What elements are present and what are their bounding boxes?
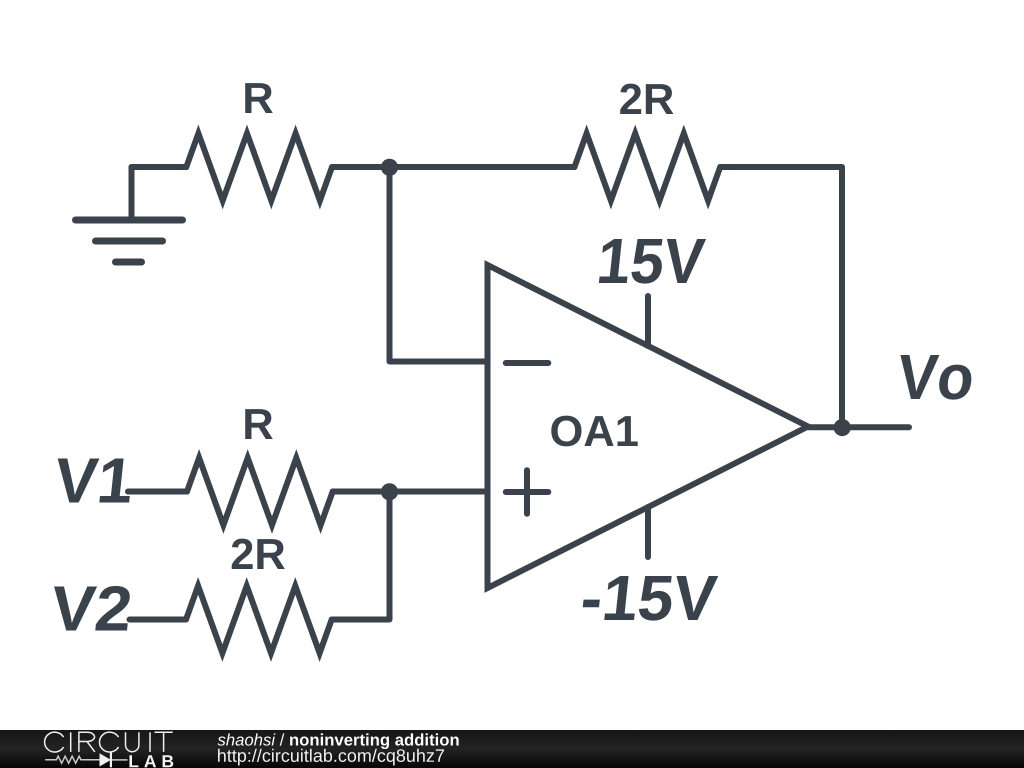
wire V2 lead (130, 617, 187, 623)
wire R1 to node A (332, 164, 390, 170)
pin V+ (645, 296, 651, 346)
wire R2 to node B (333, 489, 390, 495)
label 2R (R3) (620, 84, 673, 114)
resistor R1 (186, 133, 332, 200)
resistor R3 (2R) (575, 133, 721, 200)
wire output (808, 424, 909, 430)
wire node B to noninverting input (390, 489, 488, 495)
resistor R4 (2R) (186, 586, 332, 653)
node label Vo (900, 355, 971, 400)
label 2R (R4) (232, 539, 285, 569)
wire V1 lead (128, 489, 187, 495)
wire R4 up to node B (332, 492, 390, 620)
wire node A to inverting input (390, 167, 488, 362)
wire R3 to output node (720, 167, 842, 428)
label 15V (599, 239, 706, 284)
node label V1 (58, 458, 130, 502)
node B (381, 483, 398, 500)
node label V2 (54, 586, 130, 631)
node A (381, 159, 398, 176)
label R (R1) (245, 83, 273, 113)
wire ground to R1 (132, 164, 187, 170)
wire node A to R3 (390, 164, 575, 170)
op-amp OA1 (488, 265, 809, 588)
ground (76, 167, 183, 262)
footer title (218, 733, 459, 749)
pin V- (645, 507, 651, 557)
resistor R2 (R) (187, 458, 333, 525)
footer bar (0, 730, 1024, 768)
CircuitLab logo (45, 732, 173, 752)
label OA1 (551, 416, 637, 447)
label R (R2) (245, 409, 273, 439)
label -15V (583, 576, 719, 621)
footer url (218, 749, 444, 766)
node output (834, 419, 851, 436)
